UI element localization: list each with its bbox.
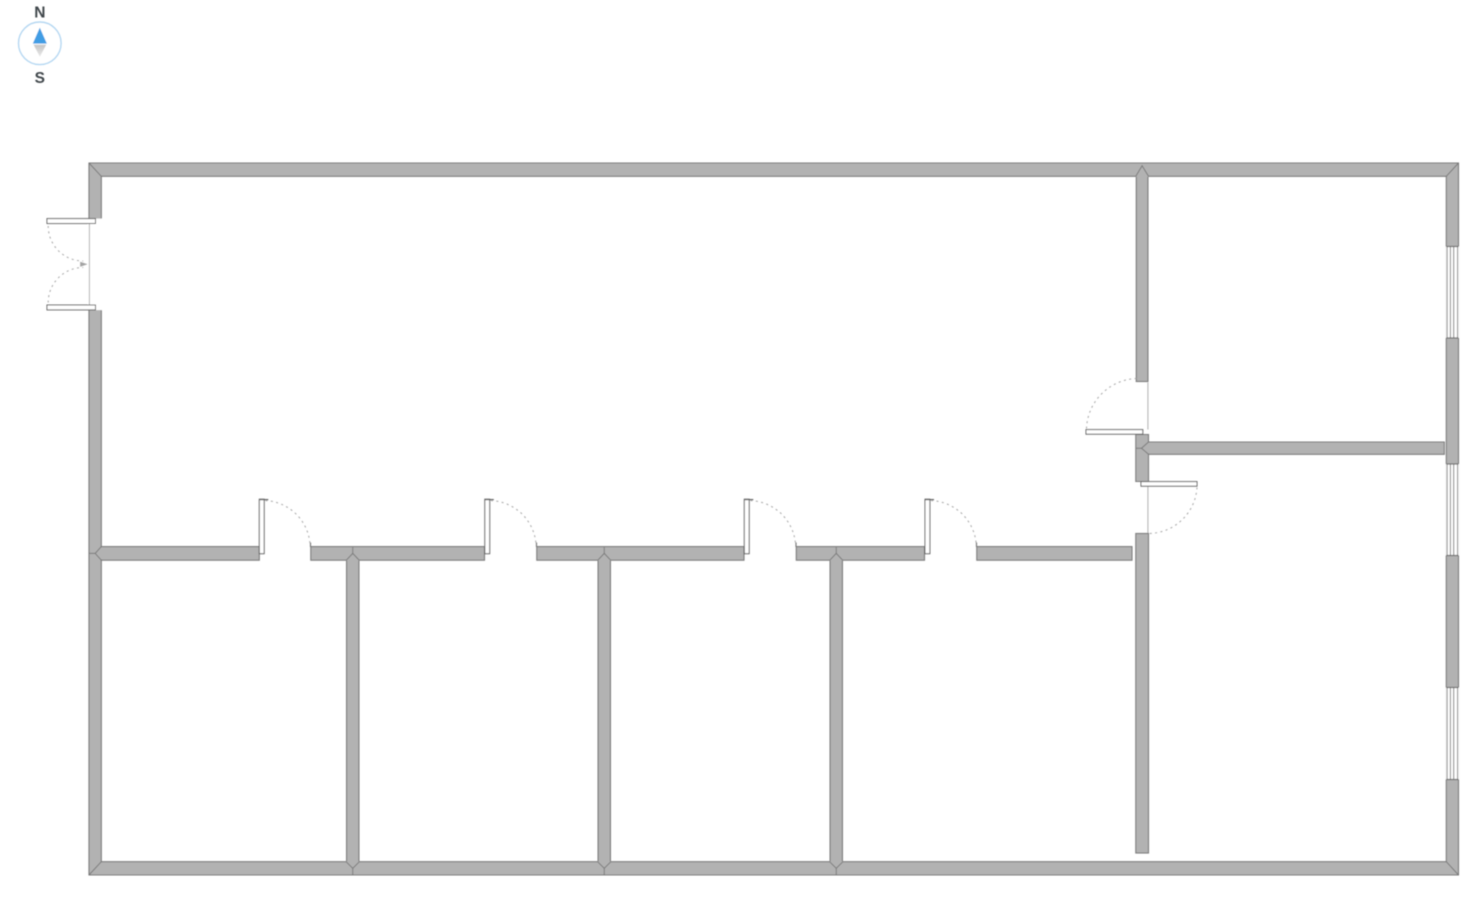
interior wall: upper-right vertical — [1136, 166, 1149, 382]
miter at divider junction — [1136, 442, 1149, 454]
window W3 end caps — [1446, 688, 1458, 780]
entry door leaf lower — [47, 305, 96, 310]
door D hinge cap — [925, 499, 934, 501]
compass north needle — [33, 28, 47, 44]
door B jamb tick — [536, 543, 538, 548]
door A leaf — [259, 499, 264, 554]
room divider wall V2 — [598, 553, 612, 875]
window W3 cutout — [1446, 688, 1459, 780]
door A hinge cap — [259, 499, 268, 501]
entry door leaf upper — [47, 219, 96, 224]
corridor wall segment 1 — [101, 547, 259, 561]
door C leaf — [744, 499, 749, 554]
door B leaf — [485, 499, 490, 554]
corridor wall segment 4 — [796, 547, 924, 561]
door E swing arc — [1087, 378, 1140, 428]
miter seam V1 bottom — [346, 862, 359, 875]
window W2 cutout — [1446, 464, 1459, 556]
door C hinge cap — [744, 499, 753, 501]
miter at top wall T-junction — [1136, 166, 1149, 177]
interior wall: lower-right vertical — [1136, 534, 1149, 854]
door D jamb tick — [976, 543, 978, 548]
entry swing arrowhead — [80, 262, 87, 267]
svg-text:S: S — [35, 70, 45, 87]
miter seam V3 bottom — [830, 862, 843, 875]
corner miter bottom-left — [89, 862, 101, 875]
door C swing arc — [751, 501, 796, 544]
window W1 glazing lines — [1447, 247, 1458, 339]
outer wall frame — [89, 163, 1459, 875]
left entry opening cutout — [88, 219, 102, 311]
door B swing arc — [491, 501, 536, 544]
entry door swing arc lower — [48, 268, 83, 303]
door B hinge cap — [485, 499, 494, 501]
miter seam V2 top — [598, 547, 611, 560]
door D swing arc — [931, 501, 976, 544]
miter seam V1 top — [346, 547, 359, 560]
corner miter top-right — [1446, 163, 1458, 176]
door F swing arc — [1150, 488, 1198, 534]
door F (lower right room) threshold line — [1147, 487, 1149, 534]
compass circle — [19, 22, 62, 65]
corridor wall segment 5 — [977, 547, 1132, 561]
entry threshold line — [88, 224, 90, 306]
corner miter bottom-right — [1446, 862, 1458, 875]
miter seam V2 bottom — [598, 862, 611, 875]
compass south needle — [34, 45, 47, 57]
door F leaf — [1141, 482, 1197, 487]
entry door swing arc upper — [48, 226, 83, 261]
corner miter top-left — [89, 163, 101, 176]
door E leaf — [1086, 430, 1143, 435]
room divider wall V1 — [346, 553, 360, 875]
door C jamb tick — [795, 543, 797, 548]
window W2 end caps — [1446, 464, 1458, 556]
window W2 glazing lines — [1447, 464, 1458, 556]
interior wall: right-rooms divider (stub + horizontal) — [1136, 435, 1445, 482]
corridor wall segment 3 — [537, 547, 744, 561]
door A jamb tick — [310, 543, 312, 548]
corridor wall segment 2 — [311, 547, 485, 561]
window W1 end caps — [1446, 247, 1458, 339]
junction mask at corridor/left-wall — [100, 547, 102, 559]
room divider wall V3 — [830, 553, 844, 875]
miter at corridor/left-wall junction — [89, 547, 101, 561]
svg-text:N: N — [34, 4, 45, 21]
miter seam V3 top — [830, 547, 843, 560]
door D leaf — [925, 499, 930, 554]
window W3 glazing lines — [1447, 688, 1458, 780]
window W1 cutout — [1446, 247, 1459, 339]
door E (upper right room) threshold line — [1147, 383, 1149, 430]
door A swing arc — [266, 501, 311, 544]
